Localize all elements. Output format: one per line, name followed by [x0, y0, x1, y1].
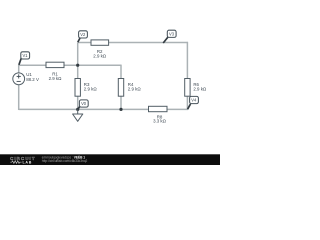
resistor R8	[149, 106, 168, 123]
svg-text:V2: V2	[80, 32, 86, 37]
svg-text:V0: V0	[81, 101, 87, 106]
svg-text:88.2 V: 88.2 V	[26, 77, 39, 82]
node V1 flag	[19, 52, 30, 65]
wire bottom rail left segment	[19, 108, 149, 110]
svg-text:2.9 kΩ: 2.9 kΩ	[93, 53, 107, 58]
resistor R3	[75, 79, 97, 97]
voltage source U1	[13, 72, 39, 85]
junction dot node R4/bottom	[119, 108, 122, 111]
wire right vertical lower	[186, 96, 188, 110]
footer bar	[0, 154, 220, 165]
wire top rail right segment	[109, 42, 188, 44]
wire center vertical lower	[77, 96, 79, 109]
wire left vertical upper	[18, 65, 20, 73]
svg-text:http://circuitlab.com/c6k33c3n: http://circuitlab.com/c6k33c3nq2	[42, 159, 88, 163]
svg-text:2.9 kΩ: 2.9 kΩ	[49, 76, 63, 81]
resistor R2	[91, 40, 109, 58]
node V3 flag	[163, 30, 176, 43]
wire top rail left segment	[78, 42, 91, 44]
junction dot node ground	[76, 108, 79, 111]
wire left vertical lower	[18, 85, 20, 110]
ground	[73, 109, 83, 121]
svg-text:2.9 kΩ: 2.9 kΩ	[84, 87, 98, 92]
footer logo zigzag	[10, 161, 21, 164]
svg-text:2.9 kΩ: 2.9 kΩ	[128, 87, 142, 92]
svg-text:LAB: LAB	[23, 160, 33, 164]
svg-text:V3: V3	[169, 31, 175, 36]
svg-text:2.9 kΩ: 2.9 kΩ	[193, 87, 207, 92]
resistor R4	[118, 79, 141, 97]
wire R4 branch vertical lower	[120, 96, 122, 110]
wire center vertical upper	[77, 43, 79, 66]
svg-text:3.3 kΩ: 3.3 kΩ	[153, 119, 167, 124]
wire bottom rail right segment	[167, 108, 188, 110]
wire middle rail left segment	[19, 64, 46, 66]
wire R4 branch vertical upper	[120, 65, 122, 79]
wire middle rail right segment	[64, 64, 121, 66]
node V0 flag	[78, 100, 88, 109]
wire right vertical upper	[186, 42, 188, 79]
junction dot node R1/R3	[76, 64, 79, 67]
wire center vertical mid	[77, 65, 79, 78]
resistor R6	[185, 79, 207, 97]
node V2 flag	[78, 31, 88, 43]
svg-text:V4: V4	[191, 98, 197, 103]
resistor R1	[46, 62, 64, 81]
svg-text:V1: V1	[22, 53, 28, 58]
node V4 flag	[188, 96, 199, 109]
